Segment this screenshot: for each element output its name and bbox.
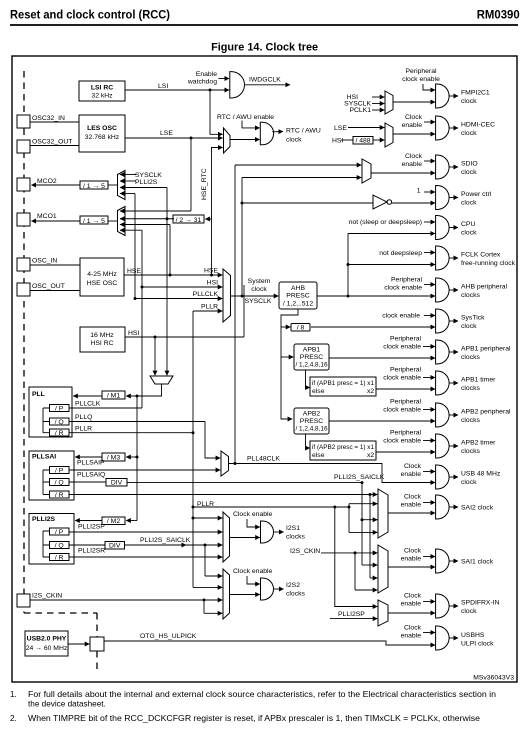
svg-text:clock: clock <box>461 200 477 207</box>
svg-text:Power ctrl: Power ctrl <box>461 191 492 198</box>
svg-text:Peripheral: Peripheral <box>390 399 421 406</box>
svg-text:LES OSC: LES OSC <box>87 125 117 132</box>
svg-text:Clock: Clock <box>404 593 422 600</box>
svg-text:Clock: Clock <box>404 494 422 501</box>
svg-text:RTC / AWU enable: RTC / AWU enable <box>217 114 274 121</box>
svg-text:/ R: / R <box>55 492 64 499</box>
svg-text:APB1 timer: APB1 timer <box>461 377 496 384</box>
svg-text:LSI: LSI <box>158 83 168 90</box>
svg-text:RTC / AWU: RTC / AWU <box>286 128 321 135</box>
svg-text:/ R: / R <box>55 555 64 562</box>
svg-text:clock: clock <box>286 137 302 144</box>
svg-text:clock: clock <box>461 98 477 105</box>
svg-text:if (APB1 presc = 1) x1: if (APB1 presc = 1) x1 <box>312 380 374 387</box>
svg-text:AHB peripheral: AHB peripheral <box>461 284 508 291</box>
svg-text:clock: clock <box>461 323 477 330</box>
svg-text:PLLI2S: PLLI2S <box>32 516 56 523</box>
svg-text:/ P: / P <box>55 529 64 536</box>
svg-text:FMPI2C1: FMPI2C1 <box>461 90 490 97</box>
svg-text:Clock: Clock <box>404 548 422 555</box>
svg-text:APB2 peripheral: APB2 peripheral <box>461 409 511 416</box>
svg-text:PLLI2SP: PLLI2SP <box>338 611 365 618</box>
svg-text:clock enable: clock enable <box>384 285 422 292</box>
svg-text:HDMI-CEC: HDMI-CEC <box>461 122 495 129</box>
svg-text:/ 1,2,4,8,16: / 1,2,4,8,16 <box>296 426 328 433</box>
svg-text:HSI: HSI <box>332 138 343 145</box>
svg-text:PLL: PLL <box>32 391 45 398</box>
svg-text:clocks: clocks <box>461 385 480 392</box>
svg-text:/ P: / P <box>55 406 64 413</box>
svg-text:not (sleep or deepsleep): not (sleep or deepsleep) <box>349 219 422 226</box>
svg-text:clock: clock <box>251 286 267 293</box>
svg-text:Peripheral: Peripheral <box>390 430 421 437</box>
svg-text:IWDGCLK: IWDGCLK <box>249 77 281 84</box>
svg-text:SAI2 clock: SAI2 clock <box>461 505 494 512</box>
svg-text:PLLI2S: PLLI2S <box>135 179 158 186</box>
svg-text:Clock enable: Clock enable <box>233 511 273 518</box>
svg-text:SPDIFRX-IN: SPDIFRX-IN <box>461 600 500 607</box>
svg-text:clocks: clocks <box>286 591 305 598</box>
svg-text:clocks: clocks <box>461 292 480 299</box>
svg-text:clock: clock <box>461 169 477 176</box>
svg-text:RM0390: RM0390 <box>477 8 520 22</box>
svg-text:MSv36043V3: MSv36043V3 <box>473 675 514 682</box>
svg-text:else: else <box>312 452 325 459</box>
svg-text:PLLR: PLLR <box>75 426 92 433</box>
svg-text:enable: enable <box>401 601 422 608</box>
svg-text:/ 8: / 8 <box>297 325 305 332</box>
svg-text:Peripheral: Peripheral <box>406 68 437 75</box>
svg-text:HSE OSC: HSE OSC <box>87 280 118 287</box>
svg-text:clock: clock <box>461 608 477 615</box>
svg-text:/ 488: / 488 <box>355 138 370 145</box>
svg-text:the device datasheet.: the device datasheet. <box>28 700 106 709</box>
svg-text:Peripheral: Peripheral <box>390 367 421 374</box>
svg-text:enable: enable <box>401 633 422 640</box>
svg-text:/ Q: / Q <box>55 543 64 550</box>
svg-text:clock: clock <box>461 130 477 137</box>
svg-text:/ M2: / M2 <box>107 518 120 525</box>
svg-text:PLLQ: PLLQ <box>75 414 92 421</box>
svg-text:/ Q: / Q <box>55 419 64 426</box>
svg-text:PLLSAIQ: PLLSAIQ <box>77 472 105 479</box>
svg-text:USB 48 MHz: USB 48 MHz <box>461 471 501 478</box>
svg-text:SDIO: SDIO <box>461 161 478 168</box>
svg-text:clock: clock <box>461 230 477 237</box>
svg-text:clock enable: clock enable <box>383 344 421 351</box>
svg-text:else: else <box>312 388 325 395</box>
svg-text:LSI RC: LSI RC <box>91 85 113 92</box>
svg-text:OSC_IN: OSC_IN <box>32 258 57 265</box>
svg-text:OSC32_OUT: OSC32_OUT <box>32 139 72 146</box>
svg-text:SYSCLK: SYSCLK <box>135 172 162 179</box>
svg-text:enable: enable <box>402 161 423 168</box>
svg-text:CPU: CPU <box>461 221 475 228</box>
svg-text:SAI1 clock: SAI1 clock <box>461 559 494 566</box>
svg-text:clocks: clocks <box>461 417 480 424</box>
svg-text:enable: enable <box>401 471 422 478</box>
svg-text:/ 1,2,..512: / 1,2,..512 <box>283 301 313 308</box>
svg-text:clocks: clocks <box>461 448 480 455</box>
svg-text:OSC_OUT: OSC_OUT <box>32 283 65 290</box>
svg-text:16 MHz: 16 MHz <box>90 332 114 339</box>
svg-text:/ 1,2,4,8,16: / 1,2,4,8,16 <box>296 362 328 369</box>
svg-text:clock enable: clock enable <box>383 407 421 414</box>
svg-text:Enable: Enable <box>196 71 217 78</box>
svg-text:PLLCLK: PLLCLK <box>75 401 101 408</box>
svg-text:Clock: Clock <box>404 625 422 632</box>
svg-text:/ 1 → 5: / 1 → 5 <box>83 218 105 225</box>
svg-text:LSE: LSE <box>334 125 347 132</box>
svg-text:if (APB2 presc = 1) x1: if (APB2 presc = 1) x1 <box>312 444 374 451</box>
svg-text:/ P: / P <box>55 468 64 475</box>
svg-text:HSI: HSI <box>207 280 218 287</box>
svg-text:OSC32_IN: OSC32_IN <box>32 115 65 122</box>
svg-text:OTG_HS_ULPICK: OTG_HS_ULPICK <box>140 633 197 640</box>
svg-text:I2S_CKIN: I2S_CKIN <box>32 593 62 600</box>
svg-text:FCLK Cortex: FCLK Cortex <box>461 252 501 259</box>
svg-text:Clock enable: Clock enable <box>233 568 273 575</box>
svg-text:PLLI2S_SAICLK: PLLI2S_SAICLK <box>334 474 385 481</box>
svg-text:/ 1 → 5: / 1 → 5 <box>83 183 105 190</box>
svg-text:/ Q: / Q <box>55 480 64 487</box>
svg-text:Clock: Clock <box>405 153 423 160</box>
svg-text:Figure 14. Clock tree: Figure 14. Clock tree <box>211 42 318 54</box>
svg-text:clock: clock <box>461 479 477 486</box>
svg-text:/ 2 → 31: / 2 → 31 <box>176 217 202 224</box>
svg-text:When TIMPRE bit of the RCC_DCK: When TIMPRE bit of the RCC_DCKCFGR regis… <box>28 714 480 723</box>
svg-text:SYSCLK: SYSCLK <box>245 298 272 305</box>
svg-text:HSI RC: HSI RC <box>90 340 113 347</box>
svg-text:PRESC: PRESC <box>300 354 324 361</box>
svg-text:clock enable: clock enable <box>383 375 421 382</box>
svg-text:24 → 60 MHz: 24 → 60 MHz <box>26 645 68 652</box>
svg-text:I2S_CKIN: I2S_CKIN <box>290 548 320 555</box>
svg-text:1: 1 <box>417 188 421 195</box>
svg-text:Peripheral: Peripheral <box>390 336 421 343</box>
svg-text:MCO1: MCO1 <box>37 213 57 220</box>
svg-text:not deepsleep: not deepsleep <box>379 250 422 257</box>
svg-text:/ M1: / M1 <box>107 393 120 400</box>
svg-text:Reset and clock control (RCC): Reset and clock control (RCC) <box>10 8 170 22</box>
svg-text:PCLK1: PCLK1 <box>349 107 371 114</box>
svg-text:DIV: DIV <box>109 543 121 550</box>
svg-text:/ R: / R <box>55 430 64 437</box>
svg-text:watchdog: watchdog <box>187 79 217 86</box>
svg-text:ULPI clock: ULPI clock <box>461 641 494 648</box>
svg-text:AHB: AHB <box>291 285 305 292</box>
svg-text:free-running clock: free-running clock <box>461 260 516 267</box>
svg-text:Clock: Clock <box>404 463 422 470</box>
svg-text:PRESC: PRESC <box>286 293 310 300</box>
svg-text:1.: 1. <box>10 690 17 699</box>
svg-text:PRESC: PRESC <box>300 418 324 425</box>
svg-text:PLL48CLK: PLL48CLK <box>247 456 280 463</box>
svg-text:APB2: APB2 <box>303 411 321 418</box>
svg-text:LSE: LSE <box>160 130 173 137</box>
svg-text:USBHS: USBHS <box>461 632 485 639</box>
svg-text:DIV: DIV <box>111 480 123 487</box>
svg-text:HSI: HSI <box>128 330 139 337</box>
svg-text:x2: x2 <box>367 388 374 395</box>
svg-text:clock enable: clock enable <box>402 76 440 83</box>
svg-text:For full details about the int: For full details about the internal and … <box>28 690 496 699</box>
svg-text:SysTick: SysTick <box>461 315 485 322</box>
svg-text:x2: x2 <box>367 452 374 459</box>
svg-text:PLLCLK: PLLCLK <box>193 291 219 298</box>
svg-text:System: System <box>248 278 271 285</box>
svg-text:4-25 MHz: 4-25 MHz <box>87 271 117 278</box>
svg-text:Clock: Clock <box>405 114 423 121</box>
svg-text:clocks: clocks <box>286 534 305 541</box>
svg-text:32.768 kHz: 32.768 kHz <box>85 134 120 141</box>
svg-text:2.: 2. <box>10 714 17 723</box>
svg-text:enable: enable <box>401 502 422 509</box>
svg-text:PLLSAI: PLLSAI <box>32 454 56 461</box>
svg-text:32 kHz: 32 kHz <box>91 93 113 100</box>
svg-text:PLLSAIP: PLLSAIP <box>77 460 105 467</box>
svg-text:clock enable: clock enable <box>383 438 421 445</box>
svg-text:I2S1: I2S1 <box>286 525 300 532</box>
svg-text:APB1: APB1 <box>303 347 321 354</box>
svg-text:PLLI2SP: PLLI2SP <box>78 524 105 531</box>
svg-text:PLLR: PLLR <box>201 304 218 311</box>
svg-text:clock enable: clock enable <box>382 313 420 320</box>
svg-text:/ M3: / M3 <box>107 455 120 462</box>
svg-text:clocks: clocks <box>461 354 480 361</box>
svg-text:HSE: HSE <box>127 268 141 275</box>
svg-text:APB1 peripheral: APB1 peripheral <box>461 346 511 353</box>
svg-text:enable: enable <box>402 122 423 129</box>
svg-text:USB2.0 PHY: USB2.0 PHY <box>27 636 67 643</box>
svg-text:PLLI2S_SAICLK: PLLI2S_SAICLK <box>140 537 191 544</box>
svg-text:Peripheral: Peripheral <box>391 277 422 284</box>
svg-text:I2S2: I2S2 <box>286 582 300 589</box>
svg-text:MCO2: MCO2 <box>37 178 57 185</box>
svg-text:HSE_RTC: HSE_RTC <box>201 168 208 200</box>
svg-text:APB2 timer: APB2 timer <box>461 440 496 447</box>
svg-text:PLLI2SR: PLLI2SR <box>78 548 105 555</box>
svg-text:enable: enable <box>401 556 422 563</box>
